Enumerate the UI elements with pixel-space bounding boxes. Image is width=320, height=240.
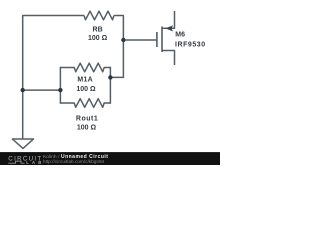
footer CircuitLab logo waveform (8, 161, 24, 163)
wire: left rail and top rail (23, 16, 84, 139)
svg-text:M6: M6 (175, 31, 185, 38)
resistor M1A (60, 63, 110, 72)
ground (12, 139, 33, 148)
node: junction on box right bar (108, 75, 112, 79)
svg-text:Rout1: Rout1 (76, 115, 98, 122)
wire: gate wire from junction to M6 (123, 39, 156, 41)
svg-text:RB: RB (93, 27, 103, 34)
transistor M6 gate bar (156, 32, 158, 47)
footer bar (0, 152, 220, 165)
svg-text:100 Ω: 100 Ω (76, 86, 96, 93)
wire: M6 source lead and top stub (162, 11, 175, 28)
wire: parallel box left bar (59, 68, 61, 104)
svg-text:100 Ω: 100 Ω (77, 124, 97, 131)
resistor RB (84, 11, 114, 20)
svg-text:100 Ω: 100 Ω (88, 35, 108, 42)
resistor Rout1 (60, 99, 110, 108)
wire: M6 drain lead and bottom stub (162, 51, 175, 66)
svg-text:IRF9530: IRF9530 (175, 41, 206, 48)
svg-text:LAB: LAB (26, 160, 44, 165)
svg-text:M1A: M1A (77, 76, 93, 83)
wire: left horizontal wire to parallel box (23, 89, 61, 91)
transistor M6 source arrow (166, 25, 174, 31)
transistor M6 channel bar (161, 27, 163, 53)
wire: RB right lead, right vertical drop and into parallel box (110, 16, 123, 78)
node: gate wire junction (121, 38, 125, 42)
node: junction on box left bar (58, 88, 62, 92)
wire: parallel box right bar (109, 68, 111, 104)
node: junction on left rail (21, 88, 25, 92)
svg-text:http​://circuitlab.com/c/kbgn9: http​://circuitlab.com/c/kbgn94 (43, 159, 105, 164)
